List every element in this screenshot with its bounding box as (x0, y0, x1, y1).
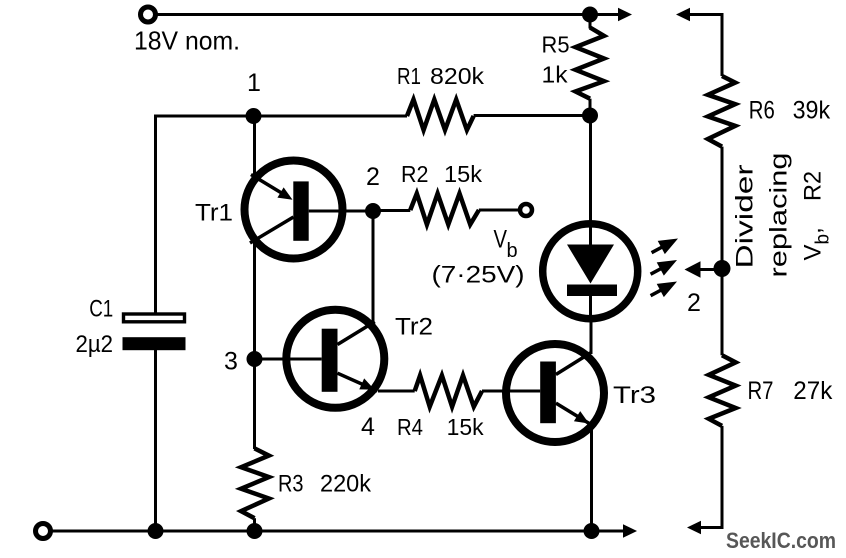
svg-text:R7: R7 (748, 377, 774, 405)
resistor R6 (708, 76, 735, 147)
wire bottom rail (50, 530, 624, 533)
wire R2 left (373, 209, 410, 212)
resistor R4 (415, 375, 482, 406)
light arrow 3 (647, 275, 681, 302)
arrow divider bottom (687, 521, 701, 534)
node 2 divider (714, 260, 731, 277)
svg-text:15k: 15k (447, 414, 484, 440)
arrow divider tap (685, 261, 701, 278)
resistor R2 (410, 194, 479, 225)
wire node1 vertical (253, 116, 256, 449)
svg-text:1k: 1k (542, 62, 569, 88)
wire R4 to Tr3 (482, 390, 504, 393)
transistor Tr1 (245, 161, 374, 259)
wire left vertical (to C1) (154, 116, 157, 531)
wire R5 top (589, 15, 592, 29)
svg-text:820k: 820k (430, 63, 485, 89)
svg-text:C1: C1 (89, 296, 113, 323)
svg-text:39k: 39k (793, 97, 831, 125)
light arrow 1 (648, 232, 682, 259)
svg-text:R2: R2 (401, 161, 429, 187)
arrow top rail right (618, 8, 632, 21)
light arrow 2 (647, 253, 681, 280)
terminal bottom left (36, 524, 51, 539)
svg-text:Tr3: Tr3 (613, 382, 656, 409)
svg-text:(7·25V): (7·25V) (432, 262, 525, 289)
svg-text:R6: R6 (749, 97, 775, 125)
svg-text:replacing: replacing (766, 153, 793, 278)
capacitor C1 bottom plate (123, 337, 186, 350)
svg-text:2: 2 (366, 163, 380, 191)
wire R3 bottom (253, 518, 256, 531)
svg-text:220k: 220k (320, 471, 372, 498)
resistor R3 (241, 448, 269, 518)
svg-text:Tr1: Tr1 (195, 200, 233, 227)
wire LED cathode to Tr3 (590, 318, 593, 354)
terminal +18V (141, 7, 156, 22)
svg-text:R5: R5 (542, 32, 570, 58)
svg-text:Tr2: Tr2 (395, 314, 433, 341)
svg-text:3: 3 (224, 348, 238, 376)
wire R5 bottom (589, 99, 592, 116)
node 3 (247, 351, 263, 367)
svg-text:4: 4 (361, 413, 375, 441)
svg-text:2: 2 (687, 289, 701, 317)
node 2 (365, 203, 381, 219)
svg-text:R4: R4 (397, 414, 423, 440)
wire R2 right (479, 209, 520, 212)
wire top rail (155, 13, 620, 16)
wire divider tap (695, 268, 722, 271)
wire node2 vertical (372, 211, 375, 322)
wire LED anode vertical (589, 116, 592, 245)
svg-text:27k: 27k (793, 377, 832, 405)
svg-text:b: b (507, 240, 518, 262)
wire R1 rail (154, 115, 407, 118)
resistor R1 (407, 100, 474, 131)
svg-text:2µ2: 2µ2 (76, 331, 114, 358)
junction dot R5/R1 (582, 108, 598, 124)
wire Tr2 emitter to R4 (378, 390, 415, 393)
wire divider branch (689, 15, 722, 528)
svg-text:1: 1 (247, 69, 261, 97)
arrow bottom rail right (623, 524, 637, 537)
svg-text:SeekIC.com: SeekIC.com (726, 528, 836, 553)
svg-text:R2: R2 (800, 171, 827, 201)
wire Tr3 emitter down (590, 425, 593, 531)
arrow divider top (676, 8, 690, 21)
svg-text:R1: R1 (397, 63, 421, 89)
LED D1 (543, 222, 638, 322)
junction dot Tr3 bottom (584, 523, 600, 539)
capacitor C1 top plate (124, 314, 185, 322)
svg-text:R3: R3 (278, 471, 304, 498)
svg-text:15k: 15k (444, 161, 483, 187)
terminal Vb (520, 204, 532, 216)
svg-text:18V nom.: 18V nom. (134, 26, 240, 56)
node 1 (246, 108, 262, 124)
junction dot top rail (582, 7, 598, 23)
junction dot R3 bottom (247, 523, 263, 539)
junction dot C1 bottom (148, 523, 164, 539)
resistor R5 (576, 28, 605, 99)
resistor R7 (709, 355, 736, 426)
svg-text:Divider: Divider (732, 164, 759, 268)
svg-text:V: V (494, 226, 508, 254)
transistor Tr3 (500, 344, 604, 442)
transistor Tr2 (255, 310, 385, 408)
